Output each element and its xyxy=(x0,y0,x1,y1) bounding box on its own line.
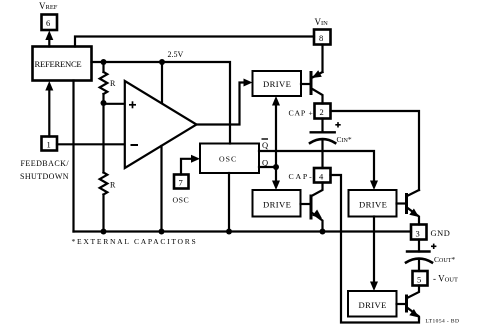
wire DRIVE2 output to Q2 base xyxy=(301,203,312,205)
arrowhead Q down into DRIVE2 top xyxy=(272,181,280,191)
arrowhead Qbar down into DRIVE3 top xyxy=(370,181,378,191)
pin 1 box xyxy=(42,137,58,151)
svg-text:*EXTERNAL CAPACITORS: *EXTERNAL CAPACITORS xyxy=(72,237,198,246)
svg-text:7: 7 xyxy=(179,178,183,188)
svg-text:DRIVE: DRIVE xyxy=(263,79,291,89)
wire Q net up to DRIVE1 bottom xyxy=(275,102,277,167)
svg-text:R: R xyxy=(110,181,116,190)
svg-text:OSC: OSC xyxy=(173,196,190,205)
svg-text:DRIVE: DRIVE xyxy=(359,300,387,310)
arrowhead shutdown into REFERENCE xyxy=(45,81,53,91)
svg-text:3: 3 xyxy=(416,229,420,239)
arrowhead drive chain into DRIVE4 top xyxy=(370,282,378,292)
wire pin5 bottom to Q4 collector xyxy=(407,286,419,299)
transistor Q3 base bar xyxy=(405,195,408,213)
pin 6 box xyxy=(42,15,58,31)
block DRIVE4 xyxy=(348,291,397,317)
resistor R2 zigzag xyxy=(100,173,108,195)
wire CIN bottom to pin 4 top xyxy=(321,139,323,168)
op-amp minus sign xyxy=(131,144,139,146)
wire DRIVE1 output to Q1 base xyxy=(301,83,311,85)
op-amp U1 comparator triangle xyxy=(125,81,197,168)
node junction dot OSC ground on rail xyxy=(226,229,232,235)
block DRIVE2 xyxy=(253,190,301,217)
wire comparator output to DRIVE1 xyxy=(197,83,247,125)
wire pin8 down to Q1 collector xyxy=(321,45,323,73)
transistor Q1 collector diagonal xyxy=(312,72,323,78)
pin 7 box xyxy=(174,175,189,189)
transistor Q1 base bar xyxy=(310,73,313,94)
node junction dot Q2 emitter on ground rail xyxy=(320,229,326,235)
resistor R1 zigzag xyxy=(100,72,108,94)
overline of Qbar xyxy=(262,138,269,140)
wire pin4 bottom to Q2 collector xyxy=(312,183,323,197)
capacitor COUT curved plate xyxy=(406,259,432,263)
wire DRIVE3 bottom to DRIVE4 top xyxy=(373,217,375,287)
svg-text:Q: Q xyxy=(262,158,268,168)
svg-text:FEEDBACK/: FEEDBACK/ xyxy=(21,159,70,168)
pin 2 box xyxy=(315,104,331,119)
node junction dot on 2.5V rail at R1 xyxy=(101,59,107,65)
wire pin2 bottom to CIN top plate xyxy=(321,119,323,133)
node junction dot on 2.5V rail at comparator supply xyxy=(159,59,165,65)
COUT plus sign xyxy=(431,244,436,249)
wire comparator ground stub xyxy=(160,146,162,232)
wire CAP+ net pin2 to Q3 collector line xyxy=(331,111,420,190)
wire REFERENCE ground down to rail xyxy=(72,81,74,232)
transistor Q4 emitter diagonal xyxy=(407,308,419,319)
wire R2 bottom lead to ground rail xyxy=(102,195,104,232)
svg-text:2.5V: 2.5V xyxy=(168,50,184,59)
arrowhead Q2 emitter xyxy=(312,210,322,219)
CIN plus sign xyxy=(335,122,340,127)
wire DRIVE4 output to Q4 base xyxy=(397,303,407,305)
svg-text:Q: Q xyxy=(262,140,268,150)
svg-text:8: 8 xyxy=(319,33,323,43)
arrowhead Q4 emitter xyxy=(409,309,419,318)
block REFERENCE xyxy=(33,47,92,81)
wire pin1 to comparator minus input xyxy=(57,143,124,145)
svg-text:CAP +: CAP + xyxy=(289,109,314,118)
arrowhead comparator output into DRIVE1 xyxy=(244,79,253,87)
transistor Q1 emitter diagonal and wire to pin 2 xyxy=(312,89,323,104)
svg-text:GND: GND xyxy=(431,229,451,238)
svg-text:DRIVE: DRIVE xyxy=(359,200,387,210)
wire DRIVE3 output to Q3 base xyxy=(397,202,407,204)
wire shutdown arrow shaft pin1 to REFERENCE xyxy=(48,86,50,137)
node junction dot Q net xyxy=(273,164,279,170)
capacitor COUT top plate xyxy=(407,250,430,252)
pin 5 box xyxy=(413,271,428,286)
arrowhead VREF into pin 6 xyxy=(45,31,53,41)
arrowhead Q3 emitter xyxy=(409,209,419,218)
wire R1 top lead xyxy=(102,62,104,72)
wire pin7 to OSC input xyxy=(181,159,192,175)
wire R1 bottom lead to node A xyxy=(102,94,104,103)
svg-text:6: 6 xyxy=(46,18,50,28)
wire node A down to R2 xyxy=(102,103,104,173)
wire comparator supply stub from 2.5V rail xyxy=(161,62,163,103)
op-amp plus sign xyxy=(129,101,136,108)
svg-text:5: 5 xyxy=(417,275,421,285)
arrowhead VIN into Q1 (on collector diagonal) xyxy=(312,70,322,78)
svg-text:1: 1 xyxy=(47,140,51,150)
transistor Q3 collector diagonal xyxy=(407,190,419,196)
svg-text:LT1054 - BD: LT1054 - BD xyxy=(426,319,460,325)
wire pin3 bottom to COUT top plate xyxy=(418,240,420,252)
transistor Q4 base bar xyxy=(405,296,408,311)
block OSC xyxy=(200,144,259,174)
pin 8 box xyxy=(314,30,331,45)
capacitor CIN top plate xyxy=(311,131,335,133)
node A junction dot (divider midpoint) xyxy=(101,100,107,106)
svg-text:2: 2 xyxy=(320,107,324,117)
wire Qbar net from OSC to DRIVE3 xyxy=(259,151,374,185)
svg-text:REFERENCE: REFERENCE xyxy=(35,59,82,69)
wire 2.5V rail from REFERENCE to OSC top xyxy=(92,62,231,144)
wire CAP- net pin4 right down and across to Q4 emitter xyxy=(331,175,420,323)
svg-text:DRIVE: DRIVE xyxy=(263,200,291,210)
svg-text:SHUTDOWN: SHUTDOWN xyxy=(20,172,69,181)
ground rail GND xyxy=(74,230,412,232)
node junction dot comparator ground on rail xyxy=(159,229,165,235)
node junction dot R2 on ground rail xyxy=(101,229,107,235)
wire Q net from OSC to junction xyxy=(259,166,276,168)
wire VREF arrow shaft REFERENCE to pin 6 xyxy=(48,37,50,47)
arrowhead Q up into DRIVE1 bottom xyxy=(272,96,280,106)
wire COUT bottom to pin 5 xyxy=(418,259,420,271)
svg-text:CAP-: CAP- xyxy=(289,172,314,181)
wire node A to comparator plus input xyxy=(104,103,125,105)
pin 4 box xyxy=(314,168,331,183)
block DRIVE3 xyxy=(349,190,397,217)
svg-text:R: R xyxy=(110,79,116,88)
wire Q net down to DRIVE2 top xyxy=(275,167,277,185)
transistor Q2 base bar xyxy=(310,196,313,218)
transistor Q2 emitter diagonal and wire to ground rail xyxy=(312,213,323,232)
svg-text:OSC: OSC xyxy=(219,155,237,164)
wire OSC ground down to rail xyxy=(228,173,230,232)
capacitor CIN curved plate xyxy=(310,139,335,143)
pin 3 box xyxy=(411,225,427,240)
arrowhead OSC input at pin 7 path xyxy=(191,155,200,163)
block DRIVE1 xyxy=(253,71,302,96)
transistor Q3 emitter diagonal and wire to pin 3 xyxy=(407,208,419,225)
arrowheads xyxy=(45,31,419,318)
wire VIN rail from REFERENCE top to pin 8 xyxy=(75,37,314,47)
